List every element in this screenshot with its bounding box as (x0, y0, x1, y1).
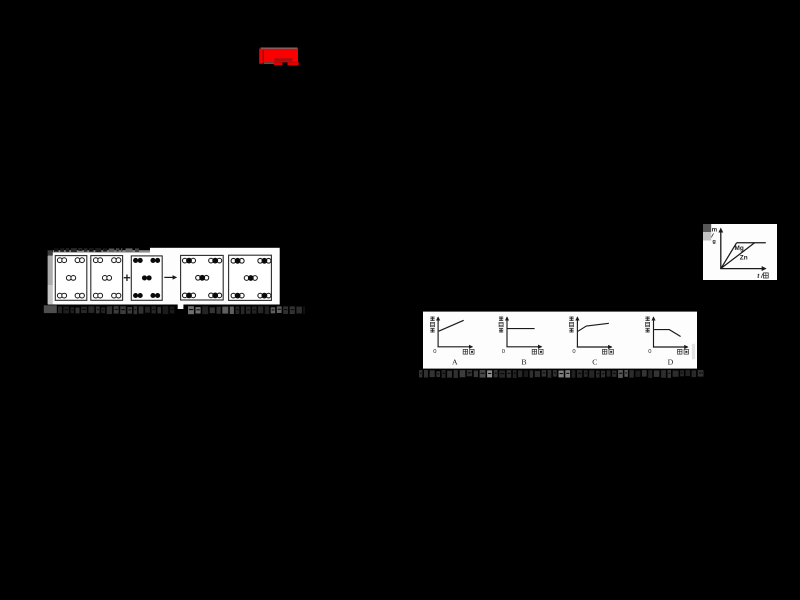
graph D axes (653, 317, 688, 347)
svg-text:g: g (712, 239, 716, 245)
graph B x-axis label 时间 (532, 349, 543, 354)
graph B data line (507, 328, 534, 330)
molecule box 5 (triatomic product molecules) (229, 255, 272, 300)
graph B y-axis label 总质量 (499, 317, 503, 333)
red highlight block (259, 48, 298, 66)
svg-text:Zn: Zn (740, 255, 748, 262)
faint question heading text (54, 248, 139, 252)
molecule box 3 (filled diatomic molecules) (131, 256, 162, 300)
faint caption under graph panel (419, 370, 704, 378)
faint caption under figure 1 (44, 305, 305, 314)
graph A axes (438, 317, 473, 347)
metal graph x axis (720, 268, 765, 270)
Zn curve (721, 243, 755, 269)
svg-text:0: 0 (433, 349, 436, 355)
metal reaction graph panel background (703, 224, 777, 280)
graph B axes (506, 317, 541, 347)
svg-text:A: A (452, 357, 458, 366)
metal graph y axis (720, 229, 722, 269)
svg-text:Mg: Mg (735, 245, 744, 252)
svg-text:B: B (521, 357, 526, 366)
molecule box 4 (triatomic product molecules) (181, 255, 224, 300)
molecule box 2 (oxygen-type diatomic, open circles) (91, 256, 123, 301)
y axis label m/g (710, 227, 717, 245)
svg-text:C: C (592, 357, 597, 366)
x axis label t/分 (757, 273, 768, 280)
graph A data line (439, 320, 464, 331)
graph C x-axis label 时间 (602, 349, 613, 354)
figure 1 scanned panel background (48, 248, 280, 305)
svg-text:0: 0 (648, 349, 651, 355)
svg-text:0: 0 (502, 349, 505, 355)
Mg curve (721, 243, 737, 269)
graph D x-axis label 时间 (678, 349, 689, 354)
svg-text:0: 0 (572, 349, 575, 355)
graph C data line (578, 323, 609, 331)
graph panel A-D background (423, 312, 697, 369)
graph C axes (577, 317, 612, 347)
plateau line (737, 242, 766, 244)
graph A x-axis label 时间 (463, 349, 474, 354)
graph D y-axis label 总质量 (645, 317, 649, 333)
svg-text:D: D (668, 357, 674, 366)
graph C y-axis label 总质量 (569, 317, 573, 333)
reaction arrow (164, 276, 176, 278)
plus sign (124, 275, 131, 282)
graph A y-axis label 总质量 (430, 317, 434, 333)
molecule box 1 (oxygen-type diatomic, open circles) (55, 256, 87, 301)
graph D data line (654, 330, 681, 337)
white notch below panel (178, 304, 184, 309)
